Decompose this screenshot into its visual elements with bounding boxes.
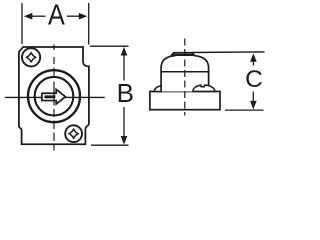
side view body seam — [161, 71, 209, 73]
dimension B line with arrows — [121, 47, 128, 145]
svg-text:A: A — [48, 0, 66, 31]
side view right screw bump with slot — [193, 85, 215, 91]
dimension A left arrow — [24, 13, 46, 20]
dimension C bottom extension line — [225, 109, 264, 111]
side view base plate — [150, 92, 220, 110]
side view top cap — [172, 53, 194, 55]
side view body — [161, 55, 209, 92]
front view horizontal centerline — [5, 96, 105, 98]
side view left screw bump — [154, 86, 161, 92]
svg-text:B: B — [117, 78, 134, 108]
dimension A left extension line — [21, 3, 23, 44]
side view vertical centerline — [184, 39, 186, 116]
bezel inner circle — [35, 77, 74, 116]
front view vertical centerline — [53, 45, 55, 151]
front view plate outline — [19, 47, 89, 144]
screw top-left — [22, 48, 40, 66]
dimension C top extension line — [192, 51, 265, 54]
dimension B bottom extension line — [91, 144, 129, 146]
dimension B top extension line — [90, 45, 129, 47]
dimension A right extension line — [88, 3, 90, 45]
dimension A right arrow — [67, 13, 88, 20]
svg-text:C: C — [245, 66, 263, 93]
screw bottom-right — [65, 125, 82, 142]
key slot black bar — [45, 95, 56, 98]
dimension C line with arrows — [250, 53, 257, 109]
bezel outer circle — [28, 70, 80, 122]
arrow key slot (white filled) — [42, 89, 66, 104]
